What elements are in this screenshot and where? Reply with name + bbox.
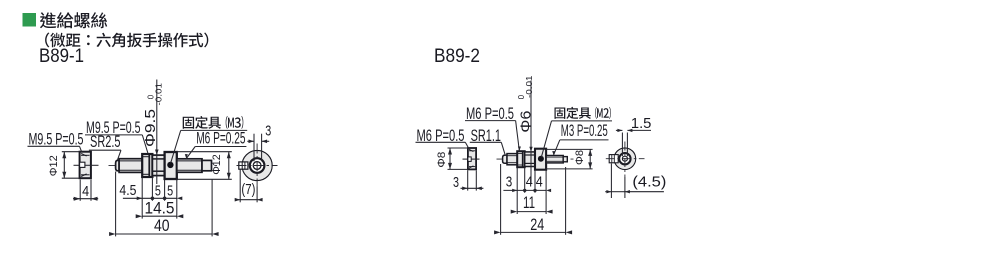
B89-2 thread flange M6	[517, 151, 525, 167]
B89-1 thread flange M9.5	[142, 154, 152, 177]
B89-1 nut centerline	[74, 164, 80, 166]
B89-1 end view centerlines	[237, 165, 278, 167]
B89-1 nut dia ext lines	[62, 151, 80, 153]
svg-text:24: 24	[530, 215, 544, 234]
B89-1 nut side view	[80, 152, 91, 179]
B89-2 ground section Phi6	[525, 152, 535, 167]
B89-1 nut width dim 4	[79, 180, 81, 201]
svg-text:3: 3	[506, 173, 513, 190]
B89-2 screw tip SR1.1	[503, 155, 507, 163]
B89-2 end view outer circle	[614, 148, 636, 170]
B89-1 end view set screw hole rect	[239, 162, 248, 169]
B89-1 nut slot notch	[80, 162, 85, 167]
B89-1 chain dim line	[123, 197, 177, 199]
B89-2 socket dim 1.5	[621, 133, 623, 157]
B89-2 set screw M2	[538, 156, 544, 162]
B89-1 socket dim 3	[253, 134, 255, 162]
B89-2 collar dia dim Phi8	[546, 148, 593, 150]
subtitle （微距：六角扳手操作式）	[45, 33, 208, 48]
svg-text:(7): (7)	[241, 181, 255, 198]
svg-text:M6 P=0.25: M6 P=0.25	[196, 128, 245, 147]
B89-2 pilot end	[563, 157, 567, 162]
B89-2 nut width dim 3	[467, 171, 469, 191]
svg-text:(4.5): (4.5)	[632, 174, 666, 191]
B89-1 pilot end	[202, 160, 212, 170]
B89-1 end view outer circle	[242, 150, 272, 180]
B89-1 dim 40	[115, 172, 117, 237]
B89-2 dim 24	[500, 164, 502, 235]
svg-text:4: 4	[536, 173, 543, 190]
svg-text:14.5: 14.5	[145, 199, 175, 218]
svg-text:-0.01: -0.01	[524, 75, 534, 98]
svg-text:Φ6: Φ6	[519, 111, 535, 133]
svg-text:Φ8: Φ8	[436, 152, 448, 168]
B89-2 dim 11	[517, 211, 546, 213]
svg-text:B89-2: B89-2	[434, 45, 480, 67]
B89-1 Phi9.5 leader line	[156, 80, 158, 155]
B89-2 nut slot notch	[468, 157, 471, 162]
title text 進給螺絲	[40, 12, 107, 28]
svg-text:11: 11	[523, 193, 535, 212]
svg-text:5: 5	[155, 183, 161, 200]
B89-1 set screw M3	[167, 162, 173, 168]
svg-text:Φ12: Φ12	[211, 154, 223, 175]
B89-2 Phi6 leader line	[530, 81, 532, 152]
B89-1 screw left shaft	[119, 159, 142, 173]
B89-1 dim 14.5	[142, 215, 177, 217]
B89-2 screw centerline	[497, 158, 574, 160]
svg-text:4.5: 4.5	[119, 182, 136, 199]
B89-2 chain dims 3 / 4 / 4 extension lines	[516, 168, 518, 215]
B89-2 end view set screw hole rect	[609, 155, 618, 163]
svg-text:Φ12: Φ12	[48, 155, 60, 176]
B89-2 nut side view	[468, 148, 476, 169]
svg-text:3: 3	[265, 123, 271, 140]
B89-1 end view hex socket circle	[253, 162, 261, 170]
B89-1 label 固定具（M3）	[183, 116, 244, 129]
B89-2 chain dim line	[503, 189, 546, 191]
B89-1 dim (7)	[239, 170, 241, 203]
B89-1 ground section Phi9.5	[152, 155, 164, 176]
B89-1 screw tip SR2.5	[116, 160, 120, 170]
svg-text:M9.5 P=0.5: M9.5 P=0.5	[29, 129, 84, 148]
B89-2 dim (4.5)	[610, 164, 612, 199]
svg-text:1.5: 1.5	[631, 115, 652, 132]
B89-2 end view hex socket circle	[622, 156, 627, 161]
svg-text:4: 4	[82, 183, 89, 200]
svg-text:3: 3	[453, 174, 459, 191]
B89-2 collar block Phi8	[535, 149, 546, 170]
B89-1 screw centerline	[109, 164, 219, 166]
svg-text:Φ8: Φ8	[574, 150, 586, 165]
B89-2 left shaft	[507, 154, 517, 165]
B89-1 nut dia dimension line Phi12	[63, 152, 65, 179]
svg-text:M3 P=0.25: M3 P=0.25	[561, 121, 608, 140]
B89-2 end view centerlines	[606, 158, 645, 160]
svg-text:40: 40	[154, 216, 170, 235]
B89-1 end view middle circle	[250, 158, 265, 173]
svg-text:B89-1: B89-1	[39, 45, 84, 67]
B89-2 right shaft M3	[546, 156, 563, 163]
B89-1 chain dims 4.5 / 5 / 5 extension lines	[141, 178, 143, 219]
svg-text:SR2.5: SR2.5	[90, 132, 121, 151]
B89-1 collar block Phi12	[165, 152, 177, 179]
B89-1 collar dia dim Phi12	[177, 151, 232, 153]
B89-2 label 固定具（M2）	[555, 107, 611, 119]
B89-1 right shaft M6	[177, 159, 202, 173]
B89-2 nut centerline	[463, 158, 468, 160]
green section bullet	[23, 13, 37, 27]
B89-2 nut dia dim Phi8	[448, 147, 468, 149]
svg-text:-0.01: -0.01	[154, 83, 164, 106]
svg-text:4: 4	[526, 173, 533, 190]
B89-2 end view middle circle	[619, 153, 630, 164]
svg-text:5: 5	[167, 183, 173, 200]
